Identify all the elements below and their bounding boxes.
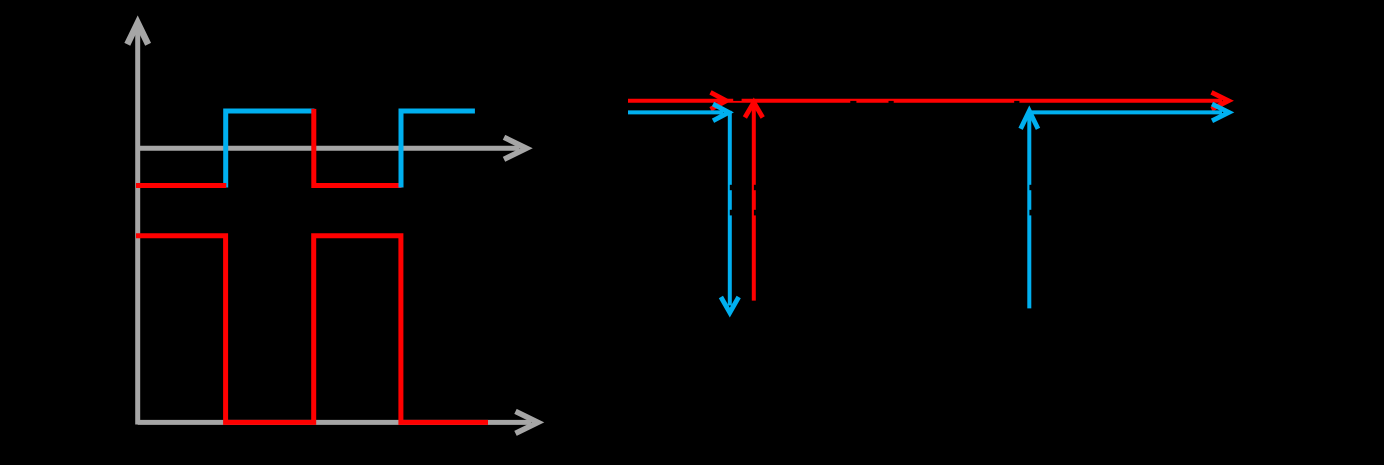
blue vertical line down (right diagram) [728,111,732,306]
black text-overlap notch on red line 2 [850,101,856,104]
red mid arrowhead (right diagram) [711,92,727,109]
x-axis arrowhead (top chart) [504,137,527,159]
blue waveform rising edge 1 + high segment 1 (top chart) [226,111,315,188]
red waveform low segment 1 (top chart) [136,183,226,188]
black text-overlap notch on red line 4 [1014,101,1019,104]
x-axis (bottom chart) [138,420,531,425]
red up arrowhead (right diagram) [745,102,763,117]
blue down arrowhead (right diagram) [721,297,739,313]
x-axis arrowhead (bottom chart) [516,411,539,433]
y-axis arrowhead [127,23,148,45]
blue up arrowhead 2 (right diagram) [1021,111,1038,129]
black text-overlap notch on red line 3 [889,101,894,104]
red end arrowhead (right diagram) [1212,92,1229,109]
black text-overlap notches on red vertical [754,185,756,190]
blue horizontal arrow 1 (right diagram) [628,110,723,114]
x-axis (top chart) [138,146,520,151]
red vertical up arrow (right diagram) [752,105,756,301]
blue arrowhead 1 (right diagram) [713,104,729,121]
blue horizontal arrow 2 (right diagram) [1027,110,1222,114]
red waveform (bottom chart) [136,236,488,423]
y-axis (left chart) [135,30,140,425]
blue vertical up arrow 2 (right diagram) [1027,114,1031,308]
red waveform falling edge + low segment 2 (top chart) [314,109,402,186]
red horizontal arrow line (right diagram) [628,99,1222,103]
black text-overlap notches on blue vertical 2 [1029,185,1031,190]
blue end arrowhead 2 (right diagram) [1212,104,1229,121]
black text-overlap notch on red line (top) [733,98,741,101]
blue waveform rising edge 2 + high segment 2 (top chart) [401,111,475,188]
black text-overlap notches on blue vertical 1 [730,185,732,190]
